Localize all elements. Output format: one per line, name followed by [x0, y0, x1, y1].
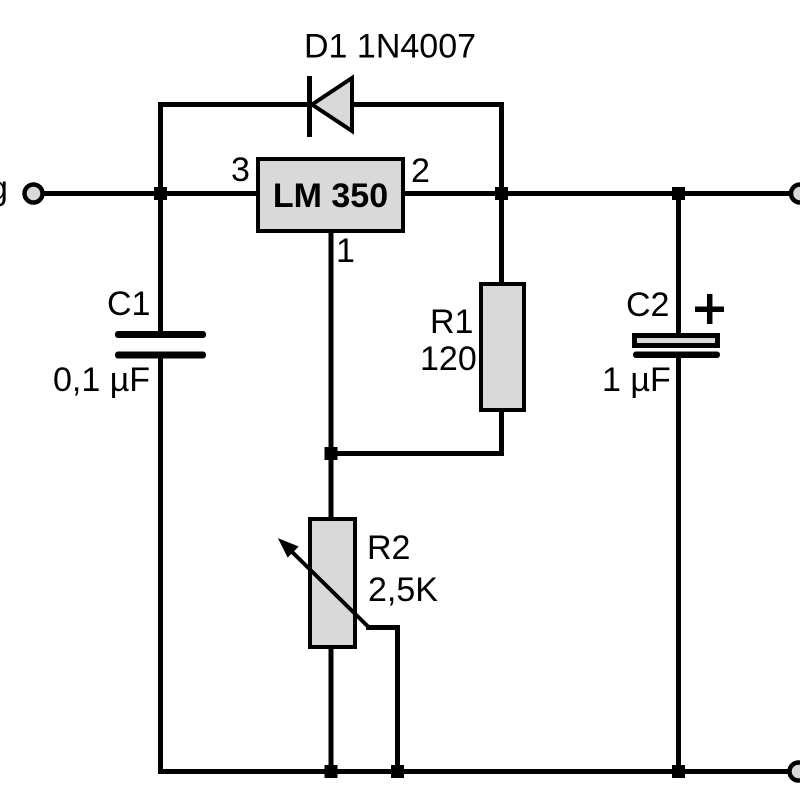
node: junction ground rail / wiper — [391, 765, 404, 778]
node: junction ground rail / C2 — [672, 765, 685, 778]
capacitor C1 bottom plate — [115, 352, 206, 359]
node: junction output rail / R1 top — [495, 187, 508, 200]
svg-text:2: 2 — [411, 152, 430, 190]
resistor R1 — [481, 284, 524, 410]
svg-text:R2: R2 — [367, 529, 410, 567]
node: junction ground rail / R2 — [325, 765, 338, 778]
svg-text:0,1 µF: 0,1 µF — [53, 361, 150, 399]
wire: C2 top connection — [676, 194, 681, 336]
svg-text:R1: R1 — [430, 303, 473, 341]
wire: R2 bottom to ground rail — [329, 645, 334, 772]
output terminal top right — [791, 185, 800, 203]
wire: C2 bottom connection — [676, 355, 681, 772]
svg-text:D1 1N4007: D1 1N4007 — [304, 28, 476, 66]
svg-text:1: 1 — [336, 232, 355, 270]
node: junction input/left rail — [154, 187, 167, 200]
svg-text:C2: C2 — [626, 286, 669, 324]
svg-text:2,5K: 2,5K — [368, 571, 438, 609]
node: junction adj / R1 leg — [325, 447, 338, 460]
node: junction output rail / C2 — [672, 187, 685, 200]
op-amp U1: LM350 regulator box — [258, 159, 403, 231]
svg-text:g: g — [0, 170, 8, 208]
wire: diode bypass loop (left vertical up, top horizontal, right vertical down to R1) — [161, 105, 502, 335]
wire: R2 wiper return down to ground rail — [366, 628, 398, 772]
diode D1 triangle — [312, 78, 352, 131]
wire: input rail from terminal to LM350 pin 3 — [44, 191, 260, 196]
diode D1 cathode bar — [307, 76, 312, 137]
potentiometer R2 wiper arrow shaft — [285, 545, 369, 628]
potentiometer R2 wiper arrowhead — [281, 541, 297, 556]
output terminal bottom right — [790, 763, 800, 781]
svg-text:120: 120 — [420, 340, 477, 378]
potentiometer R2 body — [310, 519, 355, 647]
svg-text:C1: C1 — [107, 285, 150, 323]
wire: output rail from LM350 pin 2 to right edge — [402, 191, 800, 196]
capacitor C2 positive plate (boxed) — [635, 336, 718, 346]
svg-text:3: 3 — [231, 151, 250, 189]
wire: R1 bottom leg to adj node — [331, 408, 502, 454]
wire: LM350 pin 1 down to R2 — [329, 230, 334, 521]
capacitor C2 negative plate — [633, 352, 720, 359]
capacitor C1 top plate — [115, 331, 206, 338]
svg-text:1 µF: 1 µF — [602, 361, 671, 399]
wire: left vertical below C1 down and bottom rail to right edge — [161, 355, 800, 772]
C2 polarity plus sign — [695, 294, 724, 324]
svg-text:LM 350: LM 350 — [273, 177, 388, 215]
input terminal — [25, 185, 43, 203]
